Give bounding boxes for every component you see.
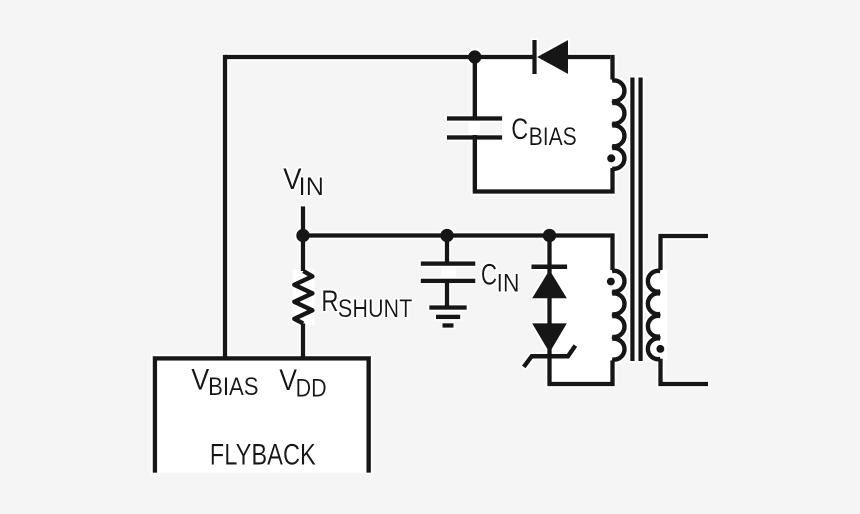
svg-text:SHUNT: SHUNT [338, 295, 413, 323]
label RSHUNT [321, 285, 412, 323]
node junction dot top [468, 50, 481, 63]
resistor RSHUNT wire upper [301, 236, 306, 272]
svg-text:IN: IN [299, 173, 324, 201]
capacitor CBIAS plates [447, 116, 502, 140]
wire secondary top [658, 236, 708, 270]
node input-loop white fill [550, 236, 614, 385]
transformer T1 bias winding white strip [606, 80, 613, 170]
svg-text:BIAS: BIAS [208, 373, 259, 401]
transformer T1 secondary winding white strip [660, 270, 667, 360]
node junction dot TVS [543, 229, 557, 243]
svg-text:V: V [279, 364, 297, 397]
diode D1 triangle [537, 40, 568, 74]
capacitor CBIAS gap band [447, 120, 502, 137]
TVS D2 top cathode bar [531, 265, 567, 270]
IC U1 FLYBACK box outline [155, 358, 369, 472]
capacitor CIN stub upper [445, 236, 450, 264]
node junction dot VIN [296, 229, 310, 243]
label CIN [481, 258, 520, 297]
svg-text:C: C [511, 113, 528, 146]
node CBIAS-loop white fill [475, 57, 613, 192]
transformer T1 primary winding white strip [606, 270, 613, 361]
ground symbol [429, 305, 467, 327]
svg-text:C: C [481, 258, 497, 291]
transformer T1 bias winding phase dot [607, 154, 615, 162]
svg-text:IN: IN [497, 269, 520, 297]
transformer T1 primary winding phase dot [607, 278, 615, 286]
transformer T1 bias winding [612, 80, 624, 168]
wire VIN stub [301, 206, 306, 235]
svg-text:R: R [321, 285, 338, 318]
transformer T1 core [630, 78, 643, 362]
resistor RSHUNT wire lower [301, 324, 306, 359]
TVS D2 wire vertical [547, 236, 612, 387]
diode D1 cathode bar [532, 40, 536, 74]
TVS D2 lower triangle [532, 323, 567, 353]
IC U1 FLYBACK box white fill [157, 356, 367, 473]
label VDD [279, 364, 326, 403]
label VIN [283, 163, 324, 201]
label CBIAS [511, 113, 577, 151]
capacitor CIN plates [421, 261, 476, 283]
capacitor CBIAS branch wire upper [473, 57, 478, 121]
resistor RSHUNT white backdrop [293, 269, 315, 325]
capacitor CIN stub lower [445, 283, 450, 308]
capacitor CBIAS branch wire lower + loop bottom [473, 135, 613, 194]
wire top rail from VBIAS pin corner to diode [225, 55, 533, 60]
resistor RSHUNT zigzag [294, 271, 312, 324]
svg-text:FLYBACK: FLYBACK [210, 439, 316, 472]
TVS D2 zener bar with hooks [524, 346, 576, 368]
wire main input rail [303, 233, 613, 270]
transformer T1 secondary winding phase dot [656, 345, 664, 353]
wire secondary bottom [658, 359, 708, 384]
wire diode to transformer bias winding [568, 55, 613, 80]
transformer T1 secondary winding [648, 271, 660, 359]
wire left vertical VBIAS feed [223, 55, 228, 359]
svg-text:DD: DD [296, 375, 327, 403]
label VBIAS [191, 364, 258, 401]
TVS D2 upper triangle [532, 270, 567, 299]
capacitor CIN gap patch [441, 265, 456, 280]
svg-text:V: V [191, 364, 209, 397]
svg-text:BIAS: BIAS [529, 123, 577, 151]
node junction dot CIN [440, 229, 454, 243]
transformer T1 primary winding [612, 271, 625, 360]
